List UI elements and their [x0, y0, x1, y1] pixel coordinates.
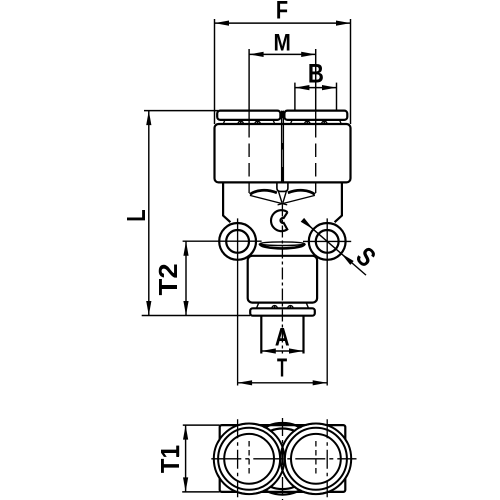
- svg-text:T1: T1: [157, 445, 185, 473]
- svg-text:T2: T2: [154, 263, 183, 295]
- svg-text:A: A: [275, 323, 290, 351]
- svg-text:F: F: [276, 0, 288, 24]
- svg-text:L: L: [121, 209, 150, 221]
- svg-text:S: S: [350, 242, 381, 273]
- svg-text:M: M: [273, 29, 290, 56]
- svg-text:B: B: [308, 60, 324, 90]
- svg-text:T: T: [277, 352, 288, 382]
